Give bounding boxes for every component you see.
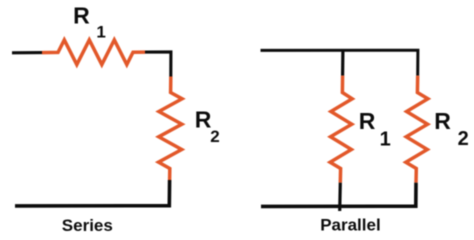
svg-text:Series: Series	[62, 216, 113, 234]
resistor R2 (series)	[159, 77, 183, 181]
svg-text:2: 2	[458, 128, 469, 150]
svg-text:Parallel: Parallel	[320, 216, 381, 234]
wire: series bottom wire	[15, 180, 170, 206]
wire: parallel branch 2 bottom stub and bottom rail	[261, 183, 416, 207]
svg-text:R: R	[73, 2, 90, 28]
label R2 (series)	[195, 106, 220, 146]
resistor R1 (series)	[42, 40, 145, 65]
svg-text:1: 1	[96, 23, 105, 42]
svg-text:R: R	[434, 108, 451, 134]
wire: parallel branch 1 top stub	[341, 50, 344, 75]
svg-text:1: 1	[380, 129, 391, 151]
resistor R2 (parallel)	[406, 76, 428, 183]
svg-text:2: 2	[210, 127, 219, 146]
label R2 (parallel)	[434, 108, 469, 150]
wire: series left lead	[12, 51, 42, 54]
wire: parallel top rail with right corner	[261, 50, 418, 75]
svg-text:R: R	[359, 108, 376, 134]
wire: parallel branch 1 bottom stub	[338, 183, 342, 211]
wire: series top-right corner	[145, 52, 171, 77]
label R1 (parallel)	[359, 108, 391, 151]
label R1 (series)	[73, 2, 106, 41]
resistor R1 (parallel)	[330, 76, 352, 183]
